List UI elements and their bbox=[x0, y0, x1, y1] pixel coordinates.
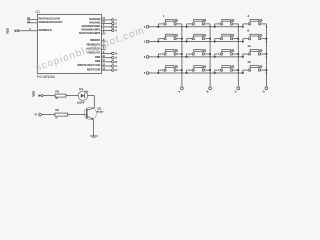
svg-text:RA4/T0CKI/CMP2: RA4/T0CKI/CMP2 bbox=[79, 31, 101, 35]
svg-text:RB7/T1OSI: RB7/T1OSI bbox=[87, 67, 101, 71]
svg-text:RA3/AN3/CMP1: RA3/AN3/CMP1 bbox=[81, 28, 100, 32]
svg-text:RA5/MCLR: RA5/MCLR bbox=[39, 28, 52, 32]
svg-text:U1: U1 bbox=[36, 10, 40, 14]
svg-text:C: C bbox=[115, 64, 117, 68]
svg-text:D1: D1 bbox=[79, 87, 83, 91]
svg-text:16: 16 bbox=[247, 60, 251, 64]
svg-text:B: B bbox=[115, 60, 117, 64]
svg-text:RA0/AN0: RA0/AN0 bbox=[89, 17, 100, 21]
svg-text:D: D bbox=[115, 68, 117, 72]
svg-text:RA6/OSC2/CLKOUT: RA6/OSC2/CLKOUT bbox=[39, 20, 63, 24]
svg-text:R1: R1 bbox=[55, 89, 59, 93]
svg-text:RB5: RB5 bbox=[95, 59, 101, 63]
svg-text:PIC16F628A: PIC16F628A bbox=[37, 75, 56, 79]
svg-text:R: R bbox=[35, 113, 37, 117]
svg-text:VDD: VDD bbox=[5, 28, 9, 34]
svg-text:RA2/AN2/VREF: RA2/AN2/VREF bbox=[82, 24, 101, 28]
svg-text:LED-R: LED-R bbox=[77, 101, 84, 104]
svg-text:RB6/T1OSO/T1CKI: RB6/T1OSO/T1CKI bbox=[78, 63, 101, 67]
svg-text:R2: R2 bbox=[55, 108, 59, 112]
svg-text:BC547: BC547 bbox=[97, 112, 104, 114]
svg-text:VDD: VDD bbox=[31, 91, 35, 97]
svg-text:R: R bbox=[115, 52, 117, 56]
svg-text:Q1: Q1 bbox=[97, 106, 101, 110]
svg-text:RA1/AN1: RA1/AN1 bbox=[89, 21, 100, 25]
svg-text:12: 12 bbox=[247, 44, 251, 48]
svg-text:RA7/OSC1/CLKIN: RA7/OSC1/CLKIN bbox=[39, 17, 60, 21]
svg-text:RB4: RB4 bbox=[95, 55, 101, 59]
svg-text:A: A bbox=[115, 56, 117, 60]
